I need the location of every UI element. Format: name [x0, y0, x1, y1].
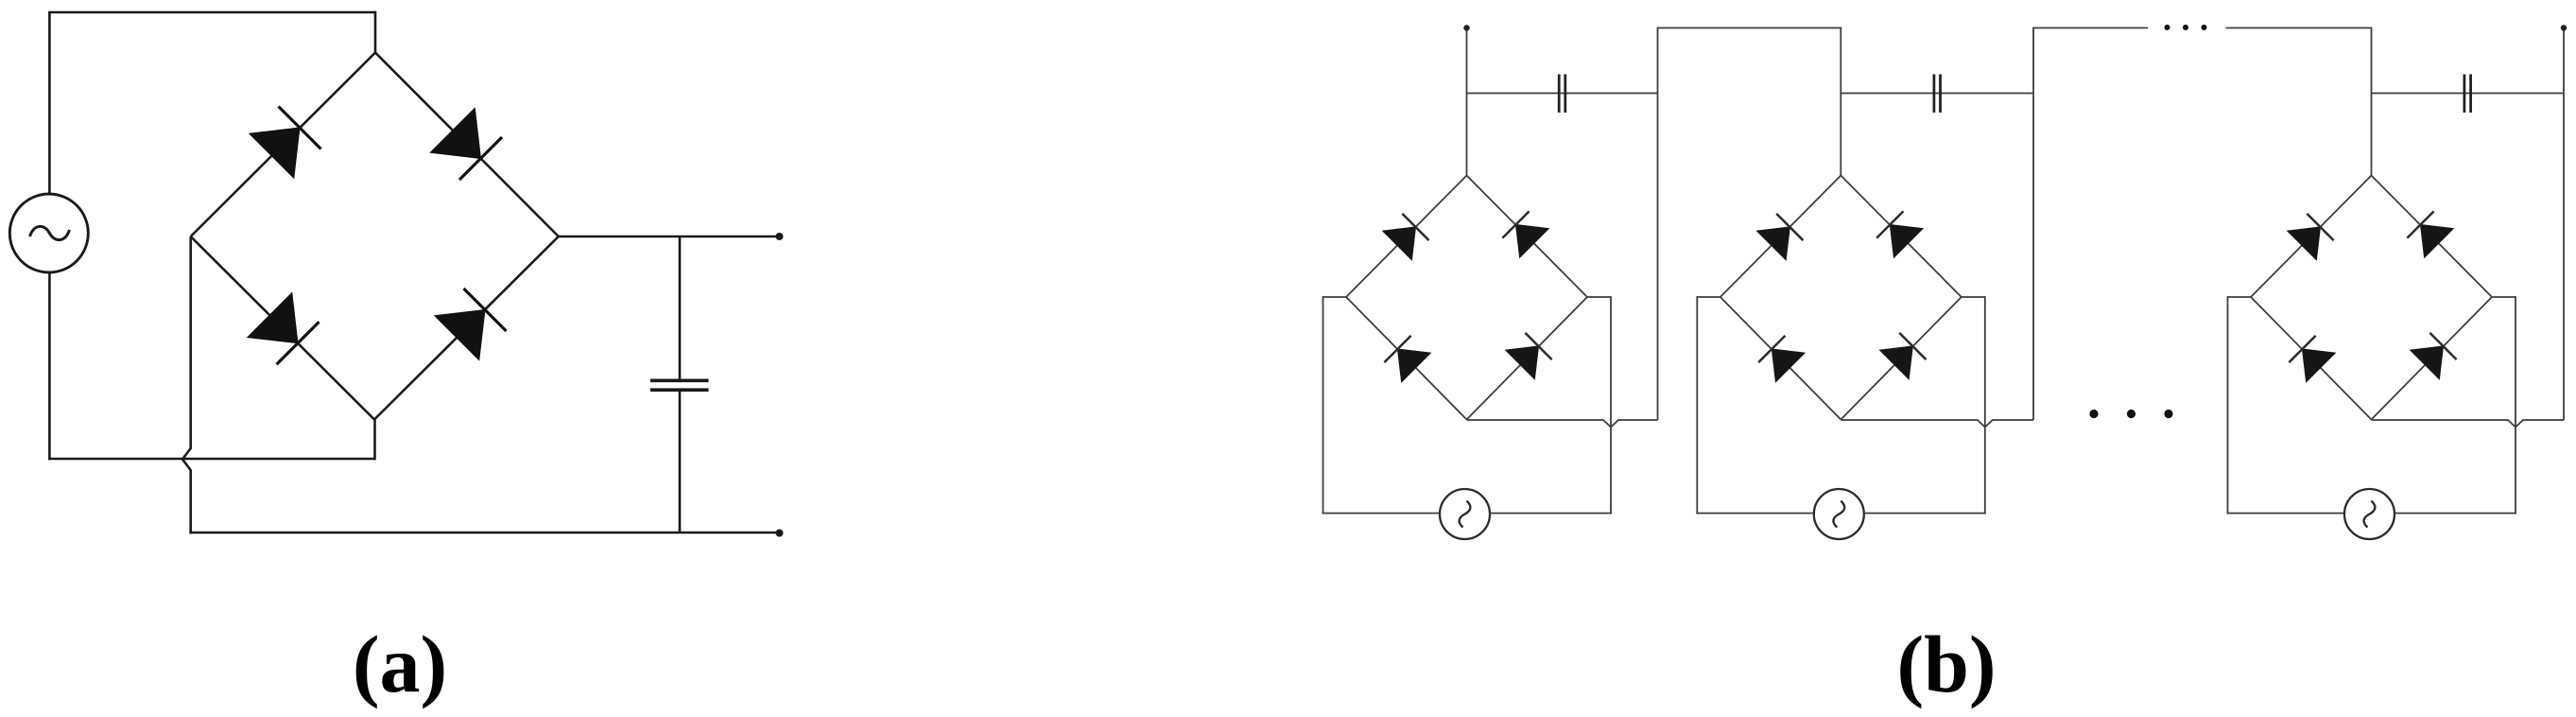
wire: source top to top rail	[48, 12, 51, 195]
wire: top rail stage2-3 right part	[2226, 27, 2372, 29]
wire: stage2 loop bottom left	[1696, 513, 1813, 515]
stage 3 bridge	[2251, 176, 2492, 420]
wire: stage2 left node out	[1697, 296, 1720, 298]
node: input terminal stage1	[1463, 25, 1469, 30]
wire: capacitor top lead	[679, 236, 682, 379]
diode D11 (stage 1 left-top arm)	[1383, 214, 1429, 260]
wire: top rail stage2-3 left part	[2033, 27, 2148, 29]
diode D13 (stage 1 left-bottom arm)	[1384, 336, 1430, 382]
wire: stage2 loop right up	[1984, 296, 1986, 514]
wire: stage3 left node out	[2228, 296, 2252, 298]
wire: stage3 loop bottom right	[2394, 513, 2516, 515]
wire: stage2 bottom node to riser with hop	[1841, 420, 2033, 428]
wire: stage1 bridge edge top-right	[1467, 176, 1588, 298]
wire: stage1 loop bottom right	[1490, 513, 1612, 515]
ac source V2	[1814, 489, 1864, 539]
wire: capacitor bottom lead	[679, 392, 682, 533]
wire: bridge edge top-right	[375, 53, 559, 236]
ac source V3	[2344, 489, 2394, 539]
diode D12 (stage 1 top-right arm)	[1502, 211, 1548, 257]
ac source V1	[9, 194, 88, 272]
ac source V1	[1440, 489, 1490, 539]
wire: positive output rail	[559, 236, 780, 238]
wire: stub up to bridge bottom node	[373, 420, 376, 461]
wire: stage2 coupling rail	[1841, 93, 2033, 95]
diode D23 (stage 2 left-bottom arm)	[1758, 336, 1805, 382]
wire: source bottom down	[48, 271, 51, 460]
wire: stage3 loop right up	[2515, 296, 2516, 514]
wire: stage3 coupling rail	[2372, 93, 2565, 95]
wire: bridge edge bottom-right	[374, 236, 559, 420]
wire: stage1 bridge edge left-bottom	[1346, 297, 1467, 420]
wire: stage2 right node in	[1962, 296, 1985, 298]
wire: stage2 bridge edge bottom-right	[1841, 297, 1962, 420]
wire: stage3 right node in	[2492, 296, 2515, 298]
capacitor C1 (coupling)	[1559, 75, 1565, 114]
wire: stage3 bridge edge left-top	[2251, 176, 2372, 298]
wire: bridge left node down with hop over ac rail	[182, 236, 191, 533]
stage 1 bridge	[1346, 176, 1587, 420]
diode D1 (left-top arm)	[250, 107, 321, 179]
wire: stage1 left node out	[1323, 296, 1347, 298]
wire: stage1 bridge edge left-top	[1346, 176, 1467, 298]
wire: stage1 bottom node to riser with hop	[1467, 420, 1658, 428]
wire: bridge edge left-bottom	[191, 236, 374, 420]
wire: stage1 riser up	[1657, 27, 1659, 420]
node: output terminal +	[776, 233, 784, 240]
diode D24 (stage 2 bottom-right arm)	[1880, 333, 1927, 379]
diode D31 (stage 3 left-top arm)	[2288, 214, 2334, 260]
wire: stage2 bridge edge left-top	[1720, 176, 1841, 298]
wire: top rail drop to bridge top	[374, 11, 377, 54]
diode D32 (stage 3 top-right arm)	[2407, 211, 2453, 257]
node: output terminal -	[776, 530, 784, 537]
wire: stage1 loop right up	[1610, 296, 1612, 514]
wire: stage2 bridge edge left-bottom	[1720, 297, 1841, 420]
wire: bottom output rail	[189, 532, 780, 534]
wire: stage3 bridge edge top-right	[2372, 176, 2493, 298]
diode D33 (stage 3 left-bottom arm)	[2289, 336, 2335, 382]
diode D21 (stage 2 left-top arm)	[1757, 214, 1804, 260]
capacitor C1	[650, 380, 709, 390]
wire: stage1 top stub	[1466, 28, 1468, 176]
capacitor C2 (coupling)	[1934, 75, 1941, 114]
stage 2 bridge	[1720, 176, 1962, 420]
wire: stage3 bridge edge left-bottom	[2251, 297, 2372, 420]
node: continuation dots middle	[2089, 410, 2172, 418]
wire: top rail stage1-2	[1658, 27, 1841, 29]
label (b)	[1896, 617, 1996, 711]
wire: stage3 loop left down	[2227, 296, 2229, 514]
wire: stage2 riser up	[2032, 27, 2034, 420]
wire: stage2 loop left down	[1696, 296, 1698, 514]
wire: bridge edge left-top	[191, 53, 375, 236]
node: continuation dots top	[2165, 25, 2207, 30]
wire: stage1 right node in	[1587, 296, 1611, 298]
diode D34 (stage 3 bottom-right arm)	[2411, 333, 2457, 379]
wire: top rail drop stage2	[1840, 27, 1841, 176]
label (a)	[353, 617, 447, 711]
wire: stage1 bridge edge bottom-right	[1467, 297, 1588, 420]
wire: stage1 loop left down	[1323, 296, 1324, 514]
wire: stage3 bottom node to riser with hop	[2372, 420, 2565, 428]
wire: stage3 loop bottom left	[2227, 513, 2344, 515]
diode D3 (left-bottom arm)	[248, 293, 320, 365]
diode D2 (top-right arm)	[430, 108, 502, 180]
wire: stage1 loop bottom left	[1323, 513, 1440, 515]
wire: stage2 loop bottom right	[1864, 513, 1986, 515]
wire: stage2 bridge edge top-right	[1841, 176, 1962, 298]
diode D4 (bottom-right arm)	[435, 289, 507, 360]
node: output terminal top right	[2561, 25, 2567, 30]
wire: stage1 coupling rail	[1467, 93, 1658, 95]
diode D22 (stage 2 top-right arm)	[1876, 211, 1923, 257]
wire: stage3 bridge edge bottom-right	[2372, 297, 2493, 420]
wire: top rail drop stage3	[2371, 27, 2373, 176]
wire: stage3 riser up	[2563, 27, 2565, 420]
capacitor C3 (coupling)	[2464, 75, 2471, 114]
wire: bottom ac rail to bridge	[48, 458, 374, 461]
wire: top rail	[48, 11, 375, 14]
diode D14 (stage 1 bottom-right arm)	[1506, 333, 1552, 379]
